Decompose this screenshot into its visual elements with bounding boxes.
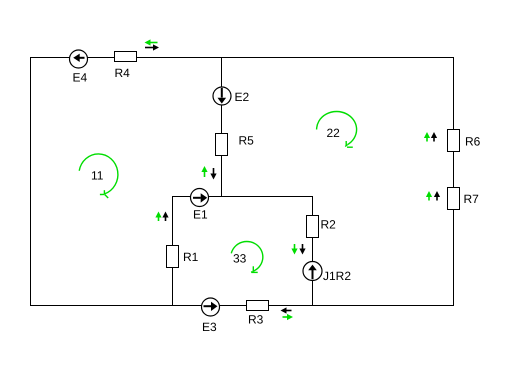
current arrow black right (near R4)	[145, 44, 159, 50]
source E1	[191, 189, 209, 207]
resistor R1	[167, 246, 179, 268]
svg-text:R4: R4	[115, 66, 131, 80]
svg-text:E1: E1	[193, 208, 208, 222]
wire right	[453, 58, 455, 306]
wire top	[31, 57, 454, 59]
source J1R2	[303, 262, 322, 281]
svg-text:E2: E2	[235, 90, 250, 104]
current arrow black down (R2)	[299, 244, 305, 255]
current arrow black up (R7)	[434, 191, 440, 201]
current arrow black up (R6)	[431, 132, 437, 142]
current arrow green right (near R3)	[283, 314, 294, 320]
svg-text:R6: R6	[465, 135, 481, 149]
svg-text:R1: R1	[183, 250, 199, 264]
wire E2-R5 branch	[221, 58, 223, 197]
current arrow black left (near R3)	[281, 307, 292, 313]
wire R2-J1 branch	[312, 197, 314, 306]
current arrow green left (near R4)	[145, 39, 158, 45]
source E3	[202, 298, 220, 316]
current arrow green up (R7)	[426, 191, 432, 201]
current arrow black up (R1)	[162, 212, 168, 222]
svg-text:33: 33	[233, 252, 247, 266]
current arrow green up (R1)	[155, 212, 161, 222]
svg-text:11: 11	[91, 169, 104, 183]
resistor R4	[115, 52, 137, 62]
svg-text:R2: R2	[321, 218, 337, 232]
source E2	[213, 87, 231, 105]
current arrow green up (R6)	[424, 132, 430, 142]
wire R1 branch	[172, 197, 174, 306]
svg-text:E3: E3	[202, 320, 217, 334]
svg-text:22: 22	[327, 126, 341, 140]
wire bottom	[31, 305, 454, 307]
mesh loop 22	[317, 112, 357, 148]
resistor R5	[216, 134, 228, 156]
resistor R7	[448, 188, 460, 210]
resistor R2	[307, 216, 319, 238]
svg-text:R3: R3	[248, 313, 264, 327]
svg-text:R5: R5	[239, 134, 255, 148]
mesh loop 33	[231, 242, 263, 273]
source E4	[70, 50, 88, 68]
current arrow green down (R2)	[291, 244, 297, 255]
svg-text:R7: R7	[464, 192, 480, 206]
resistor R3	[247, 301, 269, 311]
current arrow black down (node E1/R5)	[210, 168, 216, 180]
wire left	[30, 58, 32, 306]
resistor R6	[448, 130, 460, 152]
current arrow green up (node E1/R5)	[201, 166, 207, 177]
svg-text:J1R2: J1R2	[323, 269, 351, 283]
svg-text:E4: E4	[73, 71, 88, 85]
mesh loop 11	[79, 154, 118, 198]
wire middle horizontal	[173, 196, 313, 198]
